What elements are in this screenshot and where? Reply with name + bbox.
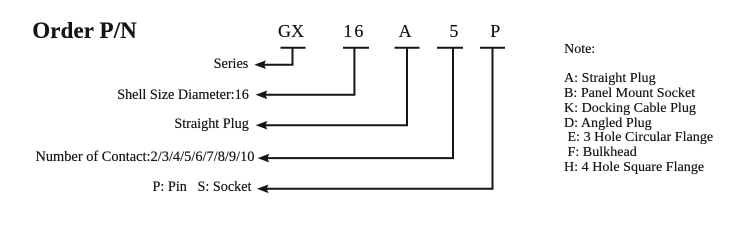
arrow P/S [257,185,269,194]
wire P: tick, drop, run to P/S [480,47,505,49]
label Shell Size Diameter:16 [117,88,249,102]
wire 5: tick, drop, run to Number of Contact [437,47,463,49]
label P: Pin S: Socket [153,180,252,194]
note heading [564,43,595,57]
code P [490,22,500,40]
code GX [278,22,304,40]
label Straight Plug [174,117,249,131]
note list [564,71,713,175]
code A [399,22,412,40]
arrow Series [254,60,266,69]
wire 16: tick, drop, run to Shell Size [343,47,369,49]
arrow Straight Plug [256,121,268,130]
code 16 [343,22,365,40]
title Order P/N [32,19,137,42]
wire A: tick, drop, run to Straight Plug [395,47,420,49]
label Number of Contact [35,150,254,164]
label Series [214,57,249,71]
wire GX: tick, drop, run to Series [281,47,306,49]
arrow Number of Contact [258,154,270,163]
arrow Shell Size [256,91,268,100]
code 5 [449,22,458,40]
